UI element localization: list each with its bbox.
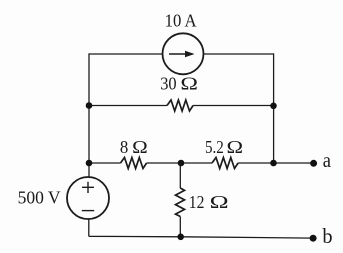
wire top-right segment (204, 53, 275, 55)
svg-text:Ω: Ω (210, 192, 229, 212)
terminal b dot (310, 235, 317, 242)
plus sign (82, 182, 94, 193)
wire row3 seg1 (89, 162, 121, 164)
svg-text:Ω: Ω (132, 137, 148, 157)
svg-text:500 V: 500 V (18, 188, 61, 208)
resistor 8ohm zigzag (121, 158, 147, 169)
wire row2 right (193, 105, 273, 107)
junction dot row3 left (86, 160, 93, 167)
wire row3 seg3 (238, 162, 313, 164)
resistor 12ohm zigzag vertical (176, 188, 185, 217)
current source arrow (169, 53, 187, 55)
wire left vertical (88, 53, 90, 177)
svg-text:12: 12 (189, 192, 205, 212)
wire row3 seg2 (147, 162, 212, 164)
junction dot row3 right (270, 160, 277, 167)
svg-text:Ω: Ω (227, 137, 244, 157)
minus sign (82, 210, 94, 212)
svg-text:b: b (322, 224, 332, 248)
svg-text:Ω: Ω (180, 74, 198, 94)
wire top-left segment (89, 53, 163, 55)
wire voltage source bottom to corner (89, 219, 313, 238)
junction dot row2 left (86, 102, 93, 109)
resistor 30ohm zigzag (167, 100, 193, 111)
junction dot bottom (177, 234, 184, 241)
svg-text:a: a (323, 148, 332, 172)
junction dot row3 mid (178, 160, 185, 167)
wire right vertical (273, 53, 275, 163)
current source U-IS circle (163, 33, 204, 74)
resistor 12ohm branch bottom wire (179, 217, 181, 238)
wire row2 left (89, 105, 167, 107)
terminal a dot (310, 160, 317, 167)
resistor 5.2ohm zigzag (212, 158, 238, 169)
junction dot row2 right (270, 103, 277, 110)
svg-text:8: 8 (120, 137, 128, 157)
svg-text:30: 30 (160, 74, 176, 94)
svg-text:5.2: 5.2 (205, 137, 224, 157)
svg-text:10 A: 10 A (165, 11, 197, 31)
voltage source V1 circle (67, 177, 109, 219)
resistor 12ohm branch top wire (179, 163, 181, 188)
